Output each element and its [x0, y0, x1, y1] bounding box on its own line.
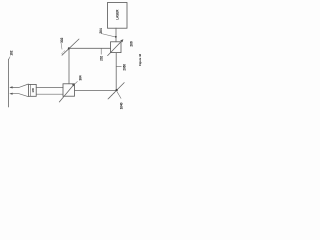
svg-text:Figure 42: Figure 42: [138, 54, 142, 66]
mirror 104: [108, 83, 124, 99]
beamsplitter cube 206: [108, 39, 124, 55]
svg-text:302: 302: [60, 38, 64, 43]
beam: cube 206 down to mirror 104: [115, 53, 117, 91]
beam: cube 304 to mirror 104: [75, 90, 117, 92]
svg-text:1040: 1040: [120, 102, 124, 109]
beam: laser to beamsplitter upper: [36, 86, 63, 88]
label 204: [99, 28, 115, 37]
beam: laser head down to cube 206: [115, 28, 117, 42]
svg-text:204: 204: [99, 28, 103, 33]
laser head 204 (big rectangle top): [108, 3, 128, 29]
screen 102 (left vertical line): [8, 59, 10, 107]
svg-text:202: 202: [100, 56, 104, 61]
beamsplitter cube 304: [59, 83, 75, 102]
label 202 (under beam): [100, 49, 104, 61]
svg-text:304: 304: [78, 75, 82, 80]
svg-text:2060: 2060: [122, 64, 126, 71]
svg-text:206: 206: [129, 41, 133, 46]
label 304: [75, 75, 82, 83]
beam: laser to screen upper (arrow): [9, 84, 28, 89]
beam: mirror 302 to beamsplitter 206: [69, 47, 110, 49]
label 302: [60, 38, 64, 50]
beam: cube up to mirror 302: [68, 48, 70, 84]
label 2060 with leader: [116, 64, 126, 71]
svg-text:LASER: LASER: [116, 9, 120, 20]
svg-text:102: 102: [9, 50, 13, 55]
label 102: [9, 50, 14, 59]
mirror 302: [62, 39, 79, 55]
beam: laser to screen lower (arrow): [9, 93, 28, 97]
laser module 100: [29, 84, 37, 96]
beam: laser to beamsplitter lower: [36, 93, 63, 95]
svg-text:100: 100: [31, 88, 35, 93]
